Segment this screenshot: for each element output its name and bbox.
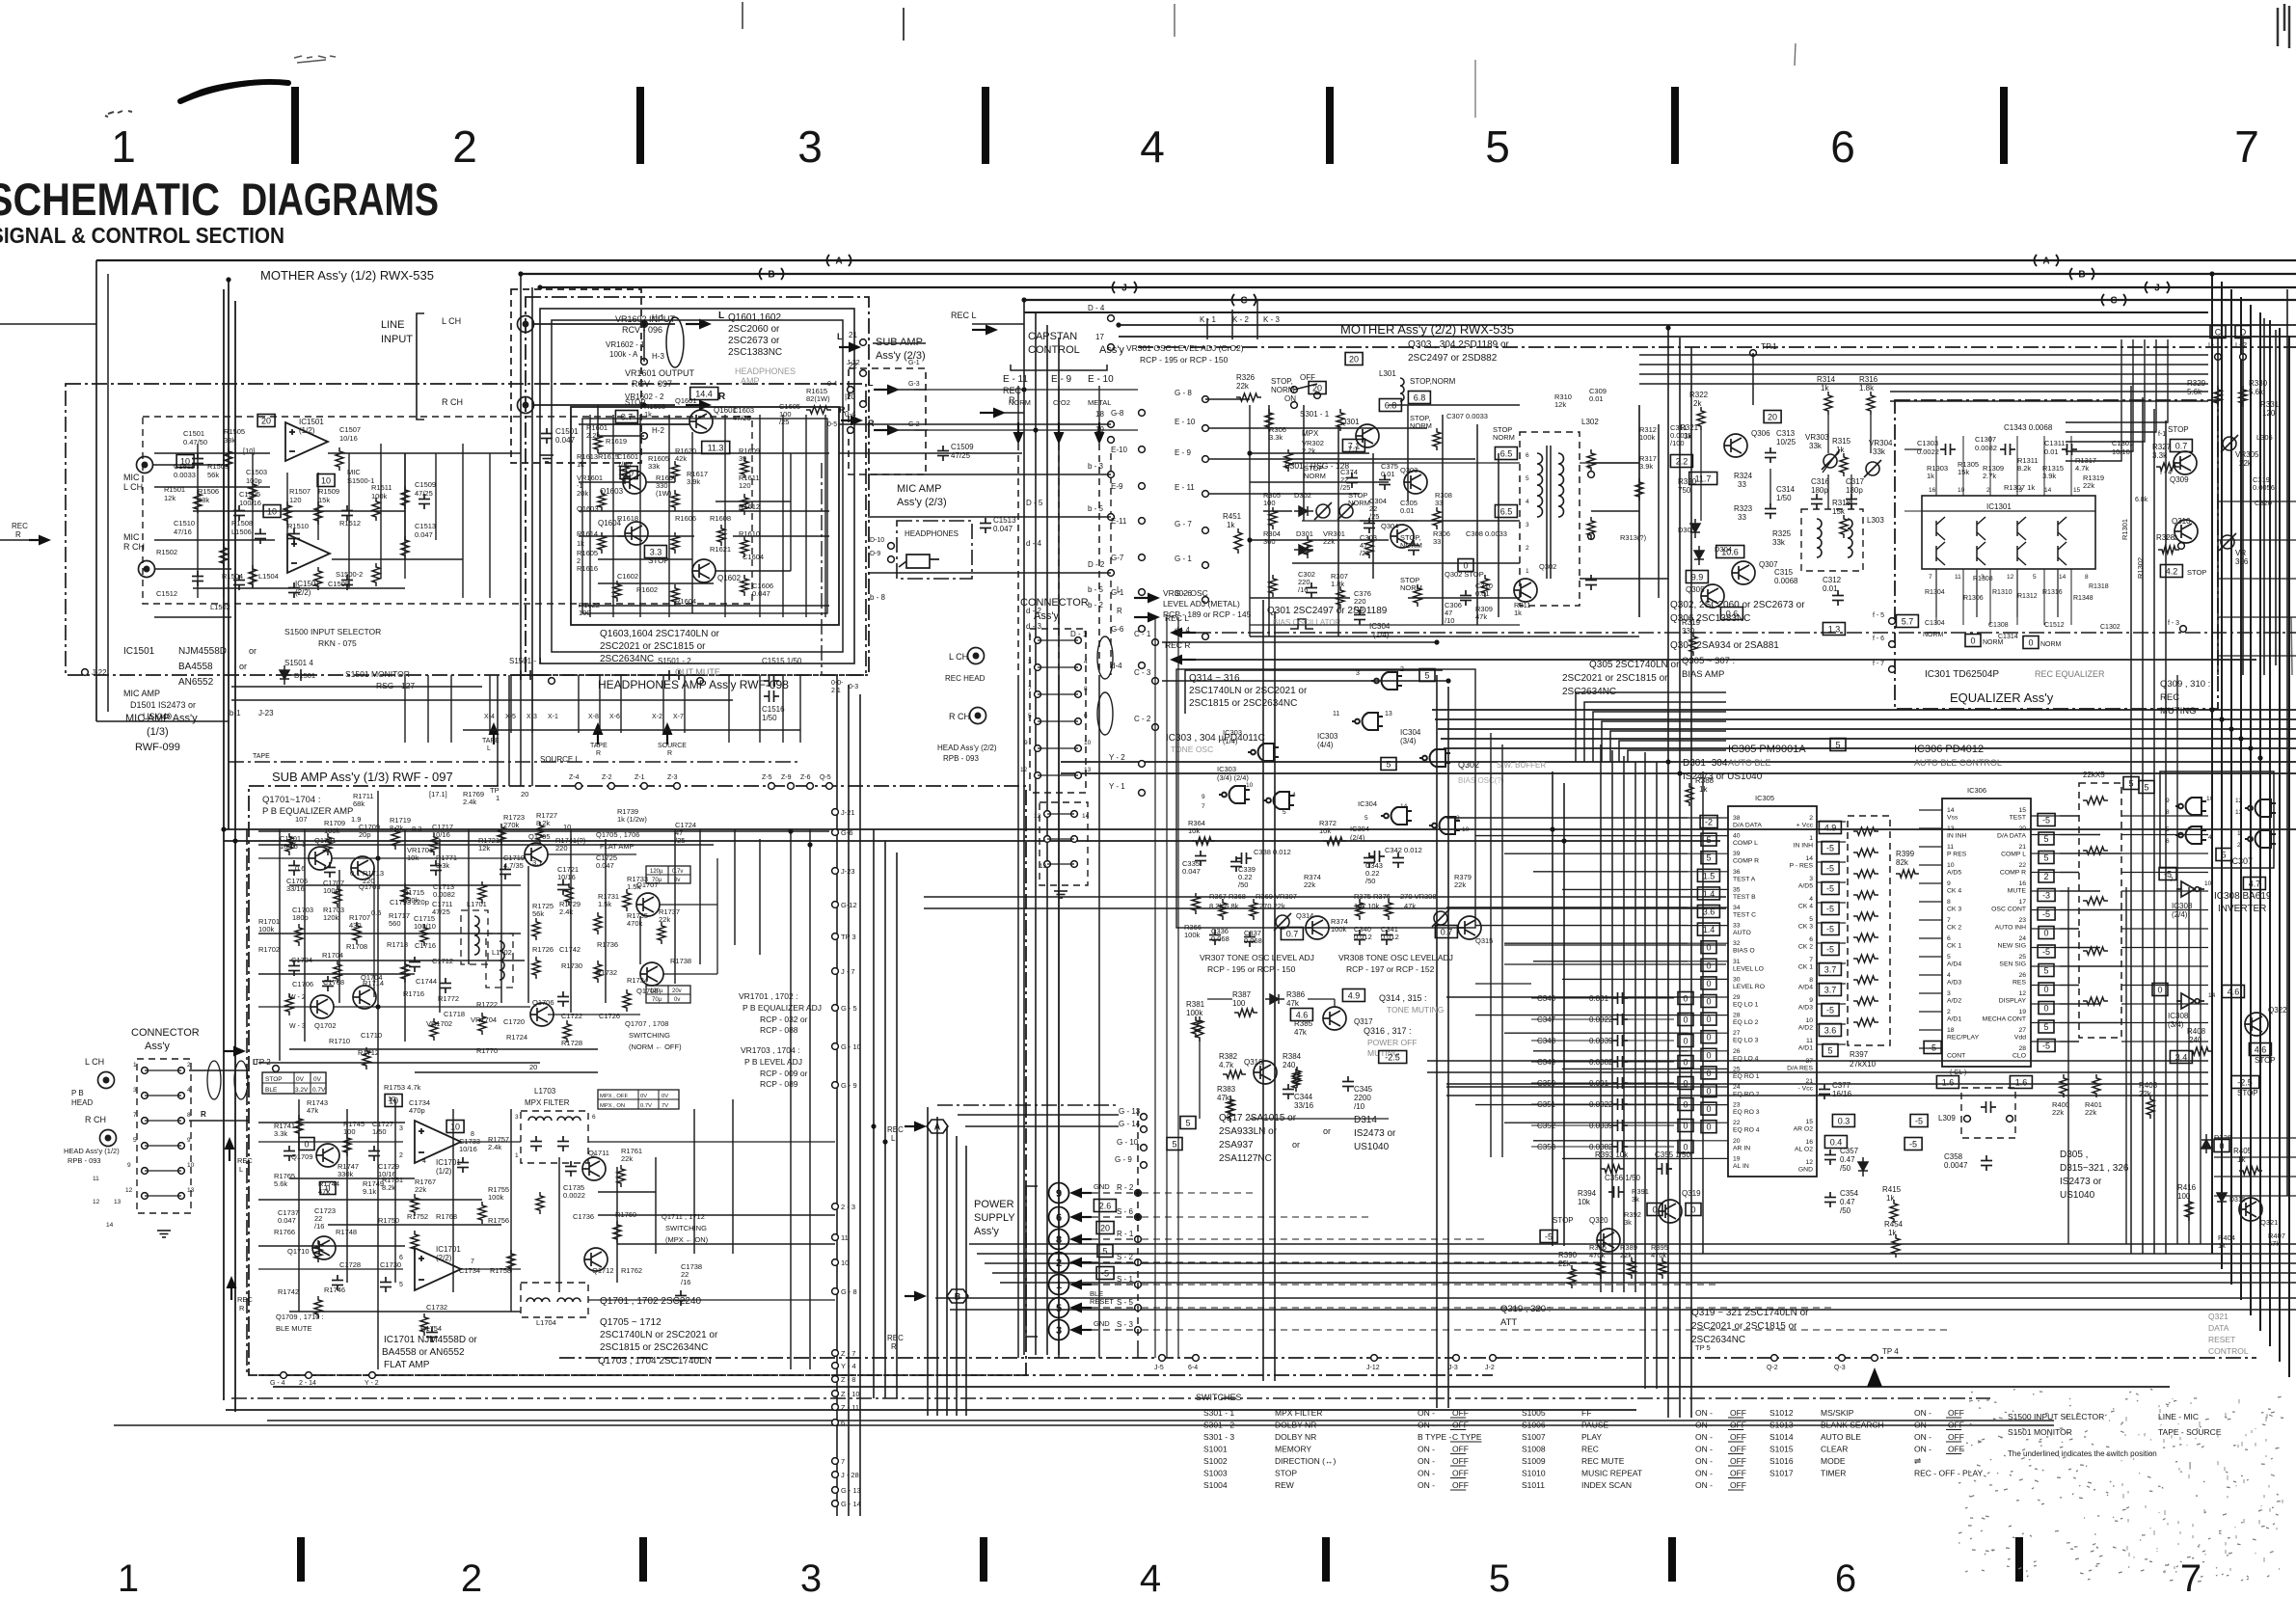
resistor symbols sub amp — [285, 833, 293, 855]
node TP1 — [1750, 350, 1757, 357]
svg-text:EQ LO 3: EQ LO 3 — [1733, 1038, 1759, 1044]
svg-text:C1728: C1728 — [339, 1260, 361, 1269]
svg-text:MOTHER Ass'y (2/2) RWX-535: MOTHER Ass'y (2/2) RWX-535 — [1340, 322, 1514, 337]
svg-text:Q302: Q302 — [1539, 562, 1556, 571]
svg-text:SEN SIG: SEN SIG — [1999, 961, 2026, 968]
svg-text:100k: 100k — [1639, 433, 1656, 442]
svg-text:0.7: 0.7 — [2175, 442, 2188, 451]
svg-text:-5: -5 — [1826, 925, 1834, 934]
svg-text:G-7: G-7 — [1111, 554, 1124, 562]
svg-text:5: 5 — [1489, 1557, 1510, 1600]
svg-text:HEAD Ass'y (2/2): HEAD Ass'y (2/2) — [937, 744, 997, 752]
svg-text:1: 1 — [133, 1062, 137, 1069]
svg-text:24: 24 — [1733, 1084, 1741, 1091]
svg-text:6.8k: 6.8k — [2135, 497, 2148, 503]
svg-text:2: 2 — [2237, 842, 2241, 849]
svg-text:G-1: G-1 — [908, 360, 920, 366]
connector ladder center — [1030, 629, 1086, 793]
svg-text:100k - A: 100k - A — [609, 350, 638, 359]
svg-text:1k: 1k — [1227, 521, 1235, 529]
svg-text:NORM: NORM — [1009, 398, 1031, 407]
svg-text:47/25: 47/25 — [733, 414, 751, 422]
svg-text:Q-2: Q-2 — [1767, 1365, 1778, 1371]
svg-text:L: L — [487, 745, 491, 752]
nor gate 3 — [2245, 799, 2276, 817]
svg-text:10: 10 — [321, 476, 331, 486]
ground connector — [1054, 891, 1067, 898]
pot VR306 — [2219, 533, 2236, 551]
svg-text:7: 7 — [841, 1457, 845, 1466]
svg-text:9: 9 — [127, 1162, 131, 1169]
svg-text:19: 19 — [1733, 1155, 1741, 1162]
svg-text:L309: L309 — [1938, 1114, 1956, 1123]
wire power supply exit lines — [1142, 1192, 1254, 1194]
svg-text:5: 5 — [1485, 122, 1510, 172]
svg-text:G - 13: G - 13 — [841, 1486, 861, 1495]
svg-text:C1303: C1303 — [1917, 439, 1938, 447]
svg-text:1: 1 — [1028, 632, 1032, 638]
svg-text:/50: /50 — [1365, 877, 1375, 885]
svg-text:20k: 20k — [577, 489, 588, 498]
transistor Q1603 — [623, 471, 646, 494]
svg-text:HEADPHONES: HEADPHONES — [735, 366, 796, 376]
wire mid horizontals y930-954 — [924, 896, 1726, 898]
svg-text:R323: R323 — [1734, 504, 1753, 513]
svg-text:5: 5 — [2144, 783, 2148, 793]
svg-text:IC1301: IC1301 — [1986, 502, 2012, 511]
svg-text:S1014: S1014 — [1769, 1432, 1794, 1442]
svg-text:33: 33 — [1738, 480, 1746, 489]
svg-text:AUTO BLE CONTROL: AUTO BLE CONTROL — [1914, 758, 2002, 768]
inverter IC308 2/4 — [2176, 881, 2204, 897]
pot VR302 — [1314, 502, 1332, 520]
wire top bus 4 — [1024, 299, 2296, 301]
svg-text:17: 17 — [1095, 333, 1104, 341]
svg-text:R: R — [201, 1110, 206, 1119]
wire top bus 8 dash-dot — [1138, 346, 2296, 348]
svg-text:(MPX ← ON): (MPX ← ON) — [665, 1235, 709, 1244]
IC306 right boxed column — [2038, 814, 2055, 826]
svg-text:L302: L302 — [1581, 418, 1599, 426]
svg-text:-5: -5 — [1101, 1269, 1109, 1279]
svg-text:12: 12 — [2018, 990, 2026, 997]
svg-text:3: 3 — [1809, 876, 1813, 882]
svg-text:STOP: STOP — [1275, 1469, 1297, 1478]
svg-text:5: 5 — [1835, 741, 1840, 750]
svg-text:2SC2497 or 2SD882: 2SC2497 or 2SD882 — [1408, 353, 1498, 364]
svg-text:(1/2): (1/2) — [436, 1167, 452, 1176]
wire mesh mic amp interior — [154, 452, 270, 454]
svg-text:CONTROL: CONTROL — [1028, 344, 1080, 356]
ground line input — [540, 455, 554, 462]
svg-text:9: 9 — [1056, 1188, 1062, 1200]
equalizer outer box — [1895, 400, 2218, 709]
svg-text:RCP - 009 or: RCP - 009 or — [760, 1069, 808, 1078]
svg-text:2.2: 2.2 — [1676, 457, 1688, 467]
svg-text:4: 4 — [1140, 1557, 1161, 1600]
svg-text:DISPLAY: DISPLAY — [1999, 998, 2027, 1005]
svg-text:Q305: Q305 — [1686, 585, 1705, 594]
svg-text:-2: -2 — [1705, 818, 1713, 827]
boxed 11.7 — [1689, 473, 1717, 485]
svg-text:R1746: R1746 — [324, 1286, 345, 1294]
svg-text:7: 7 — [2170, 877, 2174, 883]
svg-text:(2/4): (2/4) — [1350, 833, 1365, 842]
svg-text:/100: /100 — [1670, 439, 1685, 447]
svg-text:33k: 33k — [224, 436, 235, 445]
svg-text:R1730: R1730 — [561, 961, 582, 970]
svg-text:3: 3 — [1526, 522, 1529, 528]
svg-text:0.7V: 0.7V — [312, 1087, 326, 1094]
svg-text:A/D4: A/D4 — [1798, 985, 1813, 991]
svg-text:EQUALIZER Ass'y: EQUALIZER Ass'y — [1950, 690, 2054, 705]
svg-text:C317: C317 — [1846, 477, 1865, 486]
svg-text:f - 5: f - 5 — [1873, 612, 1884, 619]
svg-text:1: 1 — [515, 1152, 519, 1159]
svg-text:H-2: H-2 — [652, 426, 664, 435]
svg-text:A/D2: A/D2 — [1798, 1025, 1813, 1032]
svg-text:G-8: G-8 — [1111, 409, 1124, 418]
svg-text:OFF: OFF — [1730, 1469, 1746, 1478]
svg-text:R: R — [596, 750, 601, 757]
svg-text:2SC2021 or 2SC1815 or: 2SC2021 or 2SC1815 or — [1562, 673, 1668, 684]
svg-text:47k: 47k — [2268, 1239, 2280, 1248]
svg-text:(2/2): (2/2) — [436, 1254, 452, 1262]
svg-text:9: 9 — [1809, 997, 1813, 1004]
wire bottom y1426 dash-dot — [258, 1374, 1493, 1376]
svg-text:4: 4 — [1140, 122, 1165, 172]
svg-text:G-1: G-1 — [1111, 588, 1124, 597]
svg-text:4: 4 — [1292, 792, 1296, 798]
svg-text:0: 0 — [1706, 997, 1711, 1007]
svg-text:2.6: 2.6 — [1099, 1202, 1112, 1211]
box around Q314 types — [1185, 670, 1443, 714]
svg-text:E - 11: E - 11 — [1175, 483, 1195, 492]
svg-text:22k: 22k — [2239, 459, 2253, 468]
node H-1 — [641, 321, 648, 328]
svg-text:2: 2 — [452, 122, 477, 172]
svg-text:C - 1: C - 1 — [1134, 630, 1151, 638]
boxed 0.3 0.4 — [1832, 1115, 1854, 1127]
svg-text:D/A RES: D/A RES — [1787, 1066, 1813, 1072]
transistor Q1707 — [636, 893, 660, 916]
svg-text:Q1709: Q1709 — [291, 1152, 313, 1161]
svg-text:MIC AMP: MIC AMP — [897, 483, 941, 495]
svg-text:20: 20 — [1312, 384, 1322, 393]
svg-text:0.5: 0.5 — [371, 908, 381, 917]
svg-text:Q1602: Q1602 — [717, 574, 742, 582]
svg-text:S - 6: S - 6 — [1117, 1207, 1133, 1216]
svg-text:1k: 1k — [2237, 1155, 2246, 1164]
svg-text:17: 17 — [2018, 899, 2026, 906]
node H-3 — [641, 359, 648, 365]
svg-text:5: 5 — [1386, 760, 1391, 770]
svg-text:3.6: 3.6 — [1824, 1026, 1837, 1036]
svg-text:107: 107 — [295, 815, 308, 824]
svg-text:-5: -5 — [1826, 864, 1834, 874]
svg-text:P B: P B — [71, 1089, 84, 1097]
svg-text:R416: R416 — [2177, 1183, 2197, 1192]
svg-text:3.7: 3.7 — [1824, 965, 1837, 975]
svg-text:11: 11 — [1333, 711, 1339, 717]
svg-text:20: 20 — [1349, 355, 1359, 365]
svg-text:or: or — [249, 646, 257, 656]
svg-text:SCHEMATIC: SCHEMATIC — [0, 174, 220, 225]
svg-text:TAPE: TAPE — [253, 753, 270, 760]
svg-text:-5: -5 — [1826, 1006, 1834, 1015]
diode near C357 — [1858, 1157, 1868, 1177]
svg-text:0.01: 0.01 — [1823, 584, 1838, 593]
svg-text:5: 5 — [1809, 916, 1813, 923]
svg-text:10: 10 — [450, 1123, 460, 1132]
svg-text:12k: 12k — [1554, 400, 1566, 409]
svg-text:2: 2 — [1947, 1009, 1951, 1015]
svg-text:1k: 1k — [2218, 1241, 2226, 1250]
svg-text:P - RES: P - RES — [1790, 863, 1814, 870]
svg-text:3.2V: 3.2V — [295, 1087, 309, 1094]
svg-text:2.4k: 2.4k — [488, 1143, 501, 1151]
svg-text:RPB - 093: RPB - 093 — [943, 754, 979, 763]
svg-text:(1/4): (1/4) — [1223, 737, 1238, 745]
svg-text:180p: 180p — [292, 913, 309, 922]
connector jack L CH — [968, 648, 985, 664]
wire right horizontals 2 — [1061, 761, 2296, 763]
svg-text:22k: 22k — [659, 915, 670, 924]
svg-text:MPX FILTER: MPX FILTER — [525, 1098, 570, 1107]
svg-text:20: 20 — [529, 1063, 537, 1071]
svg-text:120: 120 — [739, 481, 751, 490]
svg-text:22k: 22k — [1304, 880, 1315, 889]
hp right connective wires — [839, 423, 1111, 425]
svg-text:Q320: Q320 — [1589, 1216, 1608, 1225]
svg-text:VR303: VR303 — [1805, 433, 1829, 442]
svg-text:1.5k: 1.5k — [598, 900, 611, 908]
inverter IC308 3/4 — [2176, 993, 2204, 1009]
svg-text:STOP,NORM: STOP,NORM — [1410, 377, 1456, 386]
svg-text:C1509: C1509 — [951, 443, 974, 451]
svg-text:L1701: L1701 — [467, 900, 487, 908]
svg-text:(3/4): (3/4) — [1400, 737, 1417, 745]
wire mid vertical x1310 — [1262, 600, 1264, 1381]
svg-text:MOTHER Ass'y (1/2) RWX-535: MOTHER Ass'y (1/2) RWX-535 — [260, 268, 434, 283]
svg-text:S301 - 3: S301 - 3 — [1203, 1432, 1234, 1442]
IC305 left stub wires — [1688, 817, 1728, 819]
svg-text:S.W. BUFFER: S.W. BUFFER — [1497, 761, 1546, 770]
svg-text:Q316: Q316 — [1244, 1058, 1263, 1067]
svg-text:1: 1 — [1809, 835, 1813, 842]
svg-text:-5: -5 — [1826, 844, 1834, 853]
svg-text:1k (1/2w): 1k (1/2w) — [617, 815, 647, 824]
svg-text:100: 100 — [579, 609, 591, 617]
svg-text:13: 13 — [1084, 767, 1092, 773]
diodes D303 D304 — [1690, 519, 1700, 538]
switch row connective wires — [489, 675, 491, 733]
svg-text:2: 2 — [399, 1152, 403, 1159]
svg-text:10: 10 — [187, 1162, 195, 1169]
svg-text:C342 0.012: C342 0.012 — [1385, 846, 1422, 854]
svg-text:2SC1383NC: 2SC1383NC — [728, 347, 782, 358]
svg-text:5: 5 — [1706, 835, 1711, 845]
headphones amp nested frame 2 — [552, 320, 843, 652]
svg-text:IC303: IC303 — [1223, 728, 1242, 737]
svg-text:0.7: 0.7 — [1441, 928, 1453, 937]
svg-text:0V: 0V — [296, 1076, 305, 1083]
svg-text:3k: 3k — [1624, 1218, 1632, 1227]
svg-text:TAPE - SOURCE: TAPE - SOURCE — [2158, 1427, 2222, 1437]
arrow hp R — [1134, 612, 1160, 623]
svg-text:SOURCE: SOURCE — [658, 743, 687, 749]
svg-text:31: 31 — [1733, 959, 1741, 965]
wire right lower horizontals — [2214, 1137, 2296, 1139]
boxed 10 subamp — [385, 1095, 402, 1107]
arrow REC L far left upper — [0, 323, 96, 325]
svg-text:10: 10 — [1084, 740, 1092, 746]
svg-text:LEVEL LO: LEVEL LO — [1733, 965, 1764, 972]
svg-text:ON -: ON - — [1914, 1408, 1931, 1418]
svg-text:5: 5 — [1056, 1303, 1062, 1314]
svg-text:0.1: 0.1 — [350, 869, 360, 878]
svg-text:L1506: L1506 — [231, 528, 252, 536]
svg-text:27: 27 — [2018, 1027, 2026, 1034]
IC305 left boxed values — [1700, 816, 1717, 828]
svg-text:TAPE: TAPE — [590, 743, 608, 749]
svg-text:/10: /10 — [1445, 616, 1454, 625]
svg-text:R1710: R1710 — [329, 1037, 350, 1045]
svg-text:Q321: Q321 — [2260, 1218, 2278, 1227]
svg-text:R1714: R1714 — [363, 979, 384, 988]
transistor Q1601 — [689, 410, 713, 433]
svg-text:0: 0 — [1706, 979, 1711, 988]
svg-text:FLAT AMP: FLAT AMP — [384, 1360, 430, 1370]
svg-text:IC306 PD4012: IC306 PD4012 — [1914, 744, 1984, 755]
svg-text:R382: R382 — [1219, 1052, 1238, 1061]
svg-text:33: 33 — [1738, 513, 1746, 522]
svg-text:C338 0.012: C338 0.012 — [1254, 848, 1291, 856]
svg-text:18: 18 — [1947, 1027, 1955, 1034]
boxed 5 power — [1180, 1117, 1196, 1129]
svg-text:COMP L: COMP L — [1733, 840, 1758, 847]
transistor Q1705 — [525, 843, 548, 866]
svg-text:GND: GND — [1094, 1182, 1110, 1191]
mpx filter box top — [521, 1111, 588, 1163]
svg-text:b - 2: b - 2 — [1088, 601, 1104, 609]
svg-text:Q1705 ~ 1712: Q1705 ~ 1712 — [600, 1317, 662, 1328]
svg-text:A/D2: A/D2 — [1947, 998, 1961, 1005]
svg-text:0: 0 — [1683, 994, 1688, 1004]
svg-text:4.6: 4.6 — [2255, 1045, 2267, 1055]
svg-text:10: 10 — [389, 1096, 398, 1106]
svg-text:-5: -5 — [2042, 816, 2050, 826]
svg-text:C1512: C1512 — [156, 589, 177, 598]
junction dots right bundle — [2209, 707, 2214, 712]
bus connector C right — [2102, 294, 2126, 306]
svg-text:IC304: IC304 — [1369, 622, 1391, 631]
svg-text:70µ: 70µ — [652, 997, 662, 1003]
svg-text:Q319 , 320 :: Q319 , 320 : — [1500, 1304, 1551, 1314]
svg-text:TP.1: TP.1 — [1761, 341, 1777, 351]
svg-text:ON -: ON - — [1418, 1469, 1435, 1478]
svg-text:2: 2 — [187, 1062, 191, 1069]
svg-text:STOP: STOP — [1553, 1216, 1574, 1225]
svg-text:J-23: J-23 — [258, 709, 274, 717]
svg-text:20: 20 — [1733, 1138, 1741, 1145]
svg-text:C1730: C1730 — [380, 1260, 401, 1269]
svg-text:R408: R408 — [2187, 1027, 2206, 1036]
svg-text:R1316: R1316 — [2042, 589, 2063, 596]
bus connector J mid — [1113, 282, 1137, 293]
wire subamp2 to G nodes — [914, 389, 1138, 391]
svg-text:REC L: REC L — [951, 311, 977, 320]
boxed 4.6 below — [2249, 1043, 2271, 1056]
svg-text:STOP: STOP — [265, 1076, 283, 1083]
svg-text:CLEAR: CLEAR — [1821, 1445, 1848, 1454]
wire bottom dash-dot y1408 TP4 line — [559, 1357, 2256, 1359]
svg-text:-5: -5 — [1826, 945, 1834, 955]
mpx filter box bottom — [521, 1283, 588, 1317]
eq caps symbols — [1940, 444, 1956, 455]
svg-text:Q316 , 317 :: Q316 , 317 : — [1364, 1026, 1412, 1036]
svg-text:HEAD: HEAD — [71, 1098, 93, 1107]
svg-text:D/A DATA: D/A DATA — [1733, 823, 1762, 829]
wire staircase nest right of mother2 — [1576, 692, 1726, 762]
svg-text:A/D5: A/D5 — [1798, 883, 1813, 890]
svg-text:0: 0 — [2028, 638, 2033, 648]
scan smudge swoosh — [180, 79, 289, 100]
svg-text:7: 7 — [1809, 957, 1813, 963]
svg-text:S1006: S1006 — [1522, 1421, 1546, 1430]
svg-text:CK 1: CK 1 — [1798, 964, 1813, 971]
svg-text:4: 4 — [1947, 972, 1951, 979]
svg-text:0.7: 0.7 — [1286, 930, 1299, 939]
svg-text:R1306: R1306 — [1963, 595, 1984, 602]
svg-text:b - 5: b - 5 — [1088, 504, 1104, 513]
svg-text:COMP L: COMP L — [2001, 852, 2026, 858]
svg-text:EQ RO 3: EQ RO 3 — [1733, 1109, 1760, 1116]
wire IC305 left long stubs — [1446, 817, 1688, 819]
svg-text:NJM4558D: NJM4558D — [178, 646, 227, 657]
scan mark top middle — [742, 2, 743, 29]
svg-text:14: 14 — [2059, 574, 2066, 581]
svg-text:S1500 INPUT SELECTOR: S1500 INPUT SELECTOR — [2008, 1412, 2104, 1421]
junction dots on buses — [1021, 297, 1026, 302]
svg-text:IC1701: IC1701 — [436, 1245, 461, 1254]
svg-text:C314: C314 — [1776, 485, 1796, 494]
svg-text:3: 3 — [1356, 670, 1360, 677]
svg-text:R1619: R1619 — [606, 437, 627, 446]
svg-text:6: 6 — [1056, 1212, 1062, 1224]
svg-text:(1/4): (1/4) — [1373, 631, 1390, 639]
svg-text:12: 12 — [1034, 813, 1041, 820]
wire left tall vertical 2 — [234, 301, 236, 1412]
svg-text:Q-3: Q-3 — [1834, 1365, 1846, 1371]
svg-text:4.9: 4.9 — [1348, 991, 1361, 1001]
wire bottom y1462 — [226, 1409, 1636, 1411]
svg-text:S1017: S1017 — [1769, 1469, 1794, 1478]
svg-text:-5: -5 — [2042, 909, 2050, 919]
svg-text:10/25: 10/25 — [1776, 438, 1796, 447]
svg-text:6: 6 — [1526, 452, 1529, 459]
svg-text:2.4k: 2.4k — [463, 798, 476, 806]
svg-text:9: 9 — [1024, 740, 1028, 746]
svg-text:R1772: R1772 — [438, 994, 459, 1003]
svg-text:R: R — [1117, 607, 1122, 615]
svg-text:0: 0 — [2043, 985, 2048, 994]
svg-text:D/A DATA: D/A DATA — [1997, 833, 2026, 840]
svg-text:9.1k: 9.1k — [363, 1187, 376, 1196]
svg-text:S1008: S1008 — [1522, 1445, 1546, 1454]
svg-text:L1703: L1703 — [534, 1087, 556, 1096]
svg-text:R: R — [239, 1304, 245, 1313]
